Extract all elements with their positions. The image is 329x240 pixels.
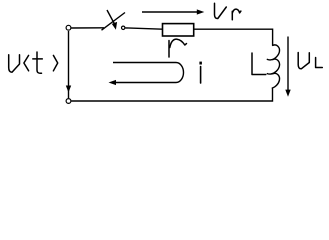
label i dot xyxy=(199,62,202,65)
uL reference arrow xyxy=(287,37,289,92)
inductor L coil (3 loops) xyxy=(267,45,279,88)
switch K closing-motion arrowhead xyxy=(112,22,117,30)
resistor R body xyxy=(163,24,194,36)
Ur reference arrow xyxy=(142,11,199,13)
wire (left vertical, source branch) xyxy=(68,31,70,98)
label L xyxy=(252,53,266,75)
source terminal (top left) xyxy=(66,25,71,30)
current loop arrow i xyxy=(112,63,184,83)
label R xyxy=(169,39,187,57)
switch K closing-motion stroke xyxy=(107,10,115,25)
current loop arrowhead xyxy=(109,80,117,85)
wire (switch to resistor) xyxy=(125,28,162,29)
label U(t) xyxy=(9,52,58,73)
switch K contact circle xyxy=(122,26,125,29)
label uL xyxy=(298,53,322,69)
uL reference arrowhead xyxy=(285,90,290,97)
switch K lever xyxy=(102,13,126,31)
arrowhead on left wire (downward) xyxy=(66,86,71,93)
Ur reference arrowhead xyxy=(197,9,205,14)
wire (top, terminal to switch) xyxy=(71,27,104,29)
label i stem xyxy=(200,67,202,84)
wire (resistor to top-right corner and down) xyxy=(194,29,273,46)
wire (coil bottom to bottom-right corner) xyxy=(71,88,272,101)
source terminal (bottom left) xyxy=(66,99,71,104)
label Ur xyxy=(215,3,241,20)
